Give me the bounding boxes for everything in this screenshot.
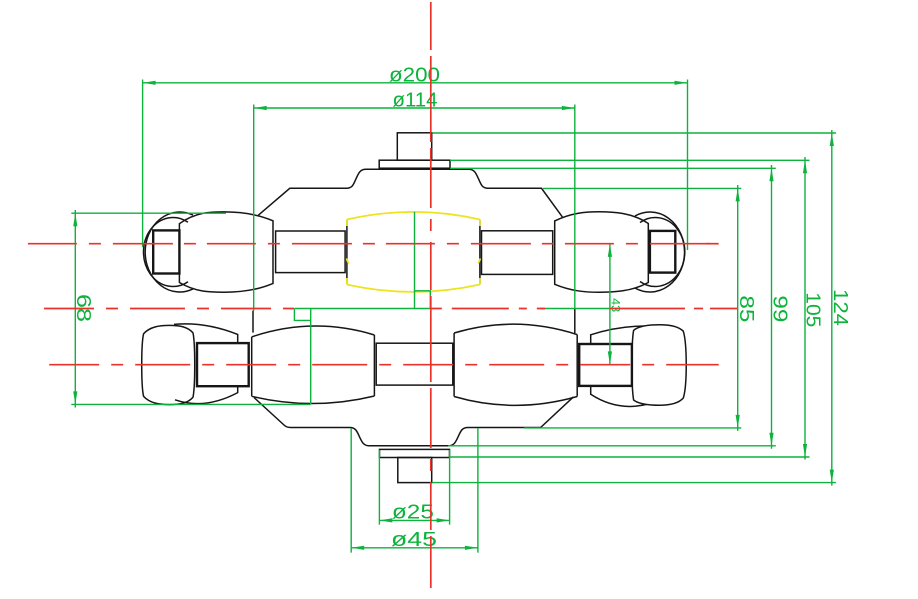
middle centerline mid	[431, 308, 545, 310]
top flange	[379, 160, 450, 168]
dim 43 line	[609, 244, 611, 365]
dim 105	[450, 157, 810, 460]
lower rod	[376, 343, 453, 385]
svg-text:85: 85	[735, 295, 757, 322]
upper-left rod	[276, 231, 346, 273]
dim 99	[448, 165, 776, 449]
body top profile with chamfers and dome	[258, 169, 563, 217]
top stub	[397, 133, 431, 160]
bottom stub	[398, 458, 432, 483]
middle centerline right	[610, 308, 737, 310]
body bottom profile with chamfers and boss	[254, 397, 573, 446]
upper axis centerline	[28, 243, 719, 245]
upper-left socket rect	[153, 230, 179, 273]
vertical centerline	[430, 2, 432, 588]
lower-right nut	[632, 325, 686, 405]
upper-right eye cap inner arc	[640, 218, 685, 287]
lower-right barrel	[454, 324, 577, 405]
dim o25	[379, 450, 449, 525]
dim o200 line	[143, 82, 688, 84]
upper-left eye cap outer arc	[145, 212, 193, 292]
red centerlines	[28, 2, 738, 588]
lower-left nut	[142, 325, 195, 404]
middle centerline left	[44, 308, 294, 310]
bottom flange	[380, 449, 450, 457]
upper-right eye cap outer arc	[635, 212, 685, 292]
upper barrel sides	[347, 220, 480, 285]
lower-right socket rect	[579, 344, 632, 386]
lower axis centerline	[49, 364, 719, 366]
yellow barrel arcs	[346, 212, 480, 292]
lower-center barrel	[252, 326, 375, 403]
svg-text:124: 124	[829, 289, 851, 326]
dim o114 line	[254, 107, 575, 109]
svg-text:ø25: ø25	[392, 502, 434, 524]
svg-text:43: 43	[608, 298, 622, 312]
lower-left boot cone	[174, 324, 238, 404]
dim 124	[432, 130, 836, 486]
svg-text:ø200: ø200	[389, 65, 440, 87]
green channel horizontal	[294, 308, 610, 310]
upper-left eye cap inner arc	[143, 218, 188, 287]
upper-right rod	[482, 231, 553, 275]
lower-right boot cone	[591, 326, 650, 407]
green channel vertical through barrel	[414, 212, 416, 309]
upper axis centerline end dash	[706, 243, 719, 245]
upper-right socket rect	[650, 231, 675, 273]
lower-left socket rect	[197, 343, 249, 386]
body right edge segment	[574, 309, 576, 334]
body left edge segment	[252, 311, 254, 333]
green dimension texts	[72, 65, 851, 552]
dim o200 ext lines	[143, 80, 688, 251]
svg-text:105: 105	[802, 292, 824, 327]
green channel vertical lower	[310, 309, 312, 405]
dim 85	[524, 185, 741, 431]
green channel rect upper	[415, 291, 431, 309]
green channel rect lower	[294, 309, 310, 321]
dim o45	[351, 428, 478, 553]
upper-right egg cone	[555, 212, 649, 293]
dim 68 line and ext	[71, 210, 310, 408]
green arrows	[73, 81, 834, 550]
svg-text:99: 99	[769, 295, 791, 322]
upper-left egg cone	[179, 212, 273, 292]
dim o114 ext lines	[254, 105, 575, 311]
